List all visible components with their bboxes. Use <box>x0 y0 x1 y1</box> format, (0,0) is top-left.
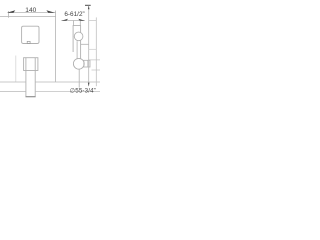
arrow down <box>88 83 90 87</box>
top cap dash <box>85 4 91 6</box>
arrow right <box>78 19 85 21</box>
tube right <box>34 58 36 97</box>
arrow left <box>61 19 68 21</box>
knob 2 <box>73 58 84 69</box>
plate <box>22 26 39 43</box>
dimension 140 line <box>8 12 56 14</box>
collar <box>24 58 38 71</box>
tube left <box>25 58 27 97</box>
pipe top ticks <box>73 21 75 26</box>
handle mark <box>27 41 30 43</box>
outlet <box>84 60 90 67</box>
vertical ext line <box>95 17 97 86</box>
counter line A <box>0 81 26 83</box>
body <box>73 26 81 59</box>
knob 1 <box>74 32 83 41</box>
arrow left <box>7 10 16 13</box>
drop pipe <box>78 69 80 87</box>
wall vertical <box>55 11 57 83</box>
svg-text:∅55-3/4”: ∅55-3/4” <box>70 88 96 95</box>
faint vertical <box>15 56 17 83</box>
tube cap <box>26 96 36 98</box>
side lines <box>89 48 97 50</box>
svg-text:140: 140 <box>25 7 36 14</box>
counter line B <box>0 91 26 93</box>
extension line left <box>8 11 10 18</box>
connector <box>81 43 89 45</box>
wall edge line <box>0 16 56 18</box>
svg-text:6-61/2”: 6-61/2” <box>64 11 84 18</box>
arrow up <box>88 6 90 10</box>
arrow right <box>46 10 55 13</box>
vertical dim line <box>88 6 90 87</box>
dimension right line <box>61 19 84 21</box>
